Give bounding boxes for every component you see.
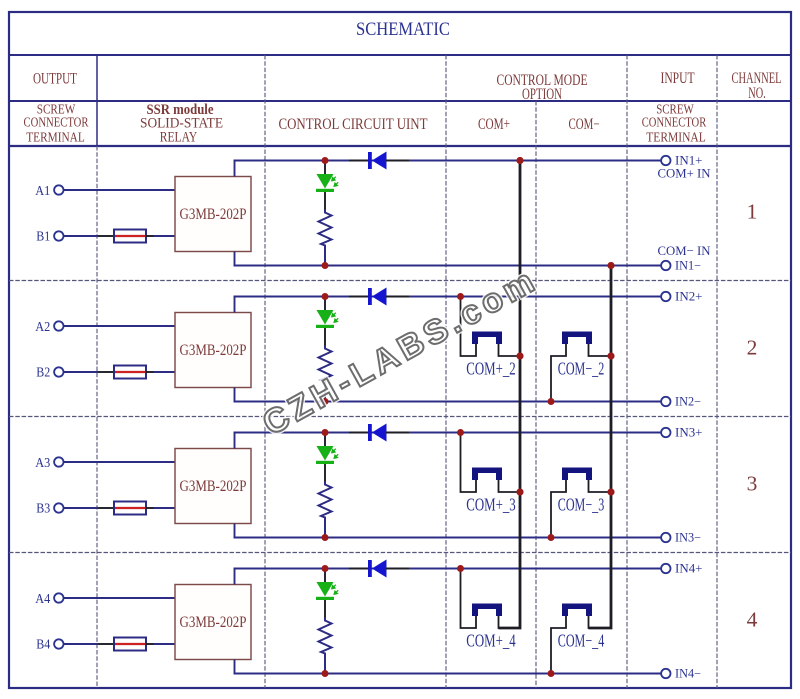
relay U4 top pin wire [234, 569, 236, 585]
relay U2 top pin wire [234, 297, 236, 313]
svg-text:4: 4 [747, 607, 758, 631]
junction dot COM+_3 top rail [457, 429, 464, 436]
junction dot COM- bus on IN1- rail [608, 262, 615, 269]
wire B3 to fuse [64, 507, 98, 509]
junction dot COM+ bus on IN1+ rail [517, 157, 524, 164]
wire top rail IN2+ [234, 296, 662, 298]
jumper COM+_2 right pin wire to COM+ bus [499, 344, 521, 356]
svg-text:OPTION: OPTION [522, 86, 562, 103]
relay U2 G3MB-202P body [175, 313, 251, 388]
terminal B1 screw circle [54, 231, 63, 240]
channel separator 3-4 [9, 552, 791, 554]
svg-text:IN3−: IN3− [675, 530, 701, 544]
wire fuse to relay B3 [154, 507, 175, 509]
svg-text:COM+_2: COM+_2 [466, 359, 516, 379]
svg-text:COM−: COM− [569, 116, 600, 133]
svg-text:RELAY: RELAY [160, 130, 198, 146]
junction dot COM+_2 top rail [457, 293, 464, 300]
terminal A2 screw circle [54, 321, 63, 330]
fuse F1 left lead [98, 235, 114, 237]
terminal A1 screw circle [54, 185, 63, 194]
jumper COM-_4 right pin wire to COM- bus [589, 616, 612, 628]
relay U4 G3MB-202P body [175, 585, 251, 660]
svg-text:G3MB-202P: G3MB-202P [180, 342, 247, 359]
resistor R3 [319, 482, 332, 537]
svg-text:3: 3 [747, 471, 758, 495]
fuse F1 [114, 230, 146, 243]
LED D4 green body [317, 582, 334, 597]
jumper COM-_2 left pin wire to IN2- rail [551, 344, 566, 402]
svg-text:A2: A2 [35, 319, 50, 334]
jumper COM+_4 right pin wire to COM+ bus [499, 616, 521, 628]
wire A3 to relay [64, 461, 175, 463]
svg-text:A3: A3 [35, 455, 50, 470]
junction dot LED bottom ch4 [322, 670, 329, 677]
fuse F1 right lead [146, 235, 154, 237]
fuse F4 left lead [98, 643, 114, 645]
relay U3 G3MB-202P body [175, 449, 251, 524]
junction dot COM- bus ch2 [608, 353, 615, 360]
wire bottom rail IN3- [234, 537, 662, 539]
junction dot LED bottom ch2 [322, 398, 329, 405]
junction dot LED bottom ch3 [322, 534, 329, 541]
resistor R2 [319, 346, 332, 401]
svg-text:B4: B4 [36, 637, 50, 652]
terminal B2 screw circle [54, 367, 63, 376]
fuse F2 right lead [146, 371, 154, 373]
wire B1 to fuse [64, 235, 98, 237]
relay U3 bottom pin wire [234, 524, 236, 538]
relay U1 top pin wire [234, 161, 236, 177]
column line OUTPUT (dashed schematic part) [96, 146, 98, 688]
svg-text:B2: B2 [36, 365, 50, 380]
LED D2 cathode lead [324, 328, 326, 348]
LED D1 anode lead [324, 161, 326, 175]
jumper COM-_2 right pin wire to COM- bus [589, 344, 612, 356]
svg-text:COM−_3: COM−_3 [558, 495, 605, 515]
diode D8 body [368, 560, 372, 577]
fuse F4 [114, 638, 146, 651]
junction dot LED top ch1 [322, 157, 329, 164]
title row divider [9, 54, 791, 56]
svg-text:IN3+: IN3+ [675, 425, 703, 439]
terminal B3 screw circle [54, 503, 63, 512]
COM- bus wire [589, 266, 612, 629]
svg-text:B1: B1 [36, 229, 50, 244]
terminal IN2+ screw circle [661, 292, 670, 301]
wire top rail IN1+ [234, 160, 662, 162]
svg-text:COM+_4: COM+_4 [466, 631, 516, 651]
terminal IN4- screw circle [661, 669, 670, 678]
svg-text:NO.: NO. [748, 85, 766, 102]
junction dot COM-_4 bottom rail [548, 670, 555, 677]
junction dot LED top ch2 [322, 293, 329, 300]
svg-text:IN4+: IN4+ [675, 561, 703, 575]
junction dot COM- bus ch3 [608, 489, 615, 496]
diode D8 left lead [349, 568, 368, 570]
header row divider [9, 100, 791, 102]
wire B2 to fuse [64, 371, 98, 373]
LED D4 cathode lead [324, 600, 326, 620]
relay U4 bottom pin wire [234, 660, 236, 674]
wire A2 to relay [64, 325, 175, 327]
fuse F3 [114, 502, 146, 515]
wire B4 to fuse [64, 643, 98, 645]
diode D7 right lead [386, 432, 409, 434]
terminal IN4+ screw circle [661, 564, 670, 573]
LED D2 green body [317, 310, 334, 325]
terminal A4 screw circle [54, 593, 63, 602]
relay U3 top pin wire [234, 433, 236, 449]
LED D3 light arrows [332, 449, 338, 459]
terminal IN3- screw circle [661, 533, 670, 542]
svg-text:IN1−: IN1− [675, 258, 701, 272]
svg-text:IN2−: IN2− [675, 394, 701, 408]
svg-text:A1: A1 [35, 183, 50, 198]
wire top rail IN3+ [234, 432, 662, 434]
jumper COM+_2 left drop wire [461, 297, 477, 357]
LED D4 light arrows [332, 585, 338, 595]
diode D8 right lead [386, 568, 409, 570]
svg-text:IN4−: IN4− [675, 666, 701, 680]
wire bottom rail IN2- [234, 401, 662, 403]
watermark CZH-LABS.com [256, 260, 544, 443]
svg-text:INPUT: INPUT [661, 68, 695, 87]
junction dot LED bottom ch1 [322, 262, 329, 269]
svg-text:G3MB-202P: G3MB-202P [180, 478, 247, 495]
header bottom divider [9, 145, 791, 147]
diode D7 body [368, 424, 372, 441]
svg-text:2: 2 [747, 335, 758, 359]
diode D7 left lead [349, 432, 368, 434]
LED D4 anode lead [324, 569, 326, 583]
terminal IN1- screw circle [661, 261, 670, 270]
terminal A3 screw circle [54, 457, 63, 466]
junction dot COM-_2 bottom rail [548, 398, 555, 405]
column line OUTPUT (solid header part) [96, 55, 98, 146]
wire fuse to relay B4 [154, 643, 175, 645]
svg-text:TERMINAL: TERMINAL [646, 129, 706, 144]
junction dot COM+ bus ch3 [517, 489, 524, 496]
junction dot LED top ch3 [322, 429, 329, 436]
jumper COM-_2 cap [562, 332, 592, 345]
svg-text:A4: A4 [35, 591, 50, 606]
terminal IN3+ screw circle [661, 428, 670, 437]
svg-text:TERMINAL: TERMINAL [26, 129, 85, 144]
column line COM-/INPUT [626, 55, 628, 688]
LED D2 light arrows [332, 313, 338, 323]
jumper COM+_2 cap [472, 332, 502, 345]
resistor R4 [319, 618, 332, 673]
fuse F2 [114, 366, 146, 379]
channel separator 1-2 [9, 280, 791, 282]
jumper COM+_4 cap [472, 604, 502, 617]
column line control/COM+ [445, 55, 447, 688]
jumper COM-_4 left pin wire to IN4- rail [551, 616, 566, 674]
junction dot COM-_3 bottom rail [548, 534, 555, 541]
terminal IN1+ screw circle [661, 156, 670, 165]
relay U2 bottom pin wire [234, 388, 236, 402]
fuse F3 right lead [146, 507, 154, 509]
svg-text:OUTPUT: OUTPUT [33, 69, 77, 88]
fuse F3 left lead [98, 507, 114, 509]
junction dot COM+ bus ch2 [517, 353, 524, 360]
column line COM+/COM- [535, 101, 537, 688]
terminal IN2- screw circle [661, 397, 670, 406]
jumper COM+_4 left drop wire [461, 569, 477, 629]
diode D5 body [368, 152, 372, 169]
wire fuse to relay B1 [154, 235, 175, 237]
svg-text:COM+ IN: COM+ IN [658, 165, 712, 180]
jumper COM-_3 right pin wire to COM- bus [589, 480, 612, 492]
wire fuse to relay B2 [154, 371, 175, 373]
jumper COM-_3 cap [562, 468, 592, 481]
diode D6 right lead [386, 296, 409, 298]
relay U1 bottom pin wire [234, 252, 236, 266]
terminal B4 screw circle [54, 639, 63, 648]
svg-text:COM+: COM+ [478, 116, 510, 133]
jumper COM+_3 right pin wire to COM+ bus [499, 480, 521, 492]
wire top rail IN4+ [234, 568, 662, 570]
jumper COM+_3 left drop wire [461, 433, 477, 493]
svg-text:B3: B3 [36, 501, 50, 516]
svg-text:G3MB-202P: G3MB-202P [180, 614, 247, 631]
svg-text:COM+_3: COM+_3 [466, 495, 516, 515]
channel separator 2-3 [9, 416, 791, 418]
svg-text:CONNECTOR: CONNECTOR [642, 115, 707, 130]
LED D3 green body [317, 446, 334, 461]
column line SSR/control [264, 55, 266, 688]
column line INPUT/CHANNEL [716, 55, 718, 688]
fuse F4 right lead [146, 643, 154, 645]
svg-text:COM− IN: COM− IN [658, 243, 712, 258]
junction dots over buses [517, 157, 524, 164]
fuse F2 left lead [98, 371, 114, 373]
diode D6 left lead [349, 296, 368, 298]
svg-text:IN2+: IN2+ [675, 289, 703, 303]
svg-text:CONTROL CIRCUIT UINT: CONTROL CIRCUIT UINT [279, 116, 429, 133]
resistor R1 [319, 210, 332, 265]
LED D1 green body [317, 174, 334, 189]
junction dot LED top ch4 [322, 565, 329, 572]
wire bottom rail IN4- [234, 673, 662, 675]
svg-text:G3MB-202P: G3MB-202P [180, 206, 247, 223]
LED D1 light arrows [332, 177, 338, 187]
jumper COM-_3 left pin wire to IN3- rail [551, 480, 566, 538]
svg-text:1: 1 [747, 199, 758, 223]
jumper COM+_3 cap [472, 468, 502, 481]
LED D3 anode lead [324, 433, 326, 447]
wire bottom rail IN1- [234, 265, 662, 267]
diode D5 left lead [349, 160, 368, 162]
svg-text:COM−_4: COM−_4 [558, 631, 605, 651]
wire A4 to relay [64, 597, 175, 599]
svg-text:CONNECTOR: CONNECTOR [24, 115, 89, 130]
jumper COM-_4 cap [562, 604, 592, 617]
COM+ bus wire [499, 161, 521, 629]
relay U1 G3MB-202P body [175, 177, 251, 252]
svg-text:COM−_2: COM−_2 [558, 359, 605, 379]
junction dot COM+_4 top rail [457, 565, 464, 572]
svg-text:SCHEMATIC: SCHEMATIC [356, 19, 450, 40]
wire A1 to relay [64, 189, 175, 191]
LED D2 anode lead [324, 297, 326, 311]
diode D5 right lead [386, 160, 409, 162]
diode D6 body [368, 288, 372, 305]
LED D3 cathode lead [324, 464, 326, 484]
LED D1 cathode lead [324, 192, 326, 212]
